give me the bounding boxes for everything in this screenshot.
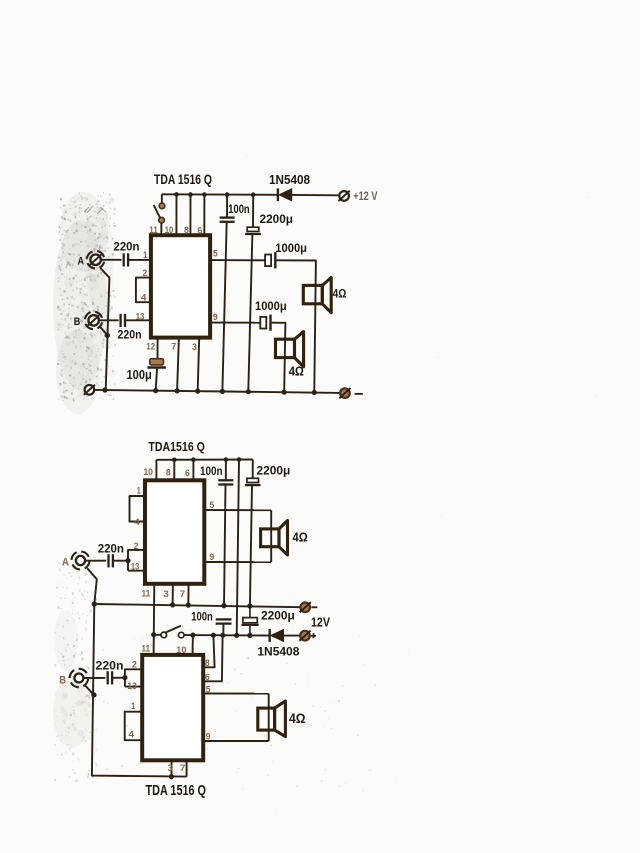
wire: speaker feed (circuit 2 lower) (268, 694, 270, 741)
label 100n (circuit 2 upper) (200, 464, 223, 478)
op-amp IC TDA1516Q U1 (circuit 1) (151, 235, 210, 337)
wire: 100u to ground (circuit 1) (156, 368, 157, 391)
pin label 3 (circuit 2 upper) (163, 589, 168, 600)
capacitor 100n (circuit 2 upper) (218, 480, 233, 484)
wire: pin 8 riser (circuit 2 upper) (173, 460, 175, 481)
node: ground junction speaker B (circuit 1) (282, 390, 287, 395)
svg-text:3: 3 (192, 342, 197, 353)
wire: pin 7 to ground (circuit 1) (177, 338, 179, 391)
svg-text:2: 2 (132, 660, 137, 671)
svg-text:220n: 220n (96, 659, 124, 673)
svg-text:4Ω: 4Ω (289, 364, 304, 378)
wire: pin 9 output (circuit 2 lower) (203, 740, 269, 742)
wire: +12V rail (circuit 2) (184, 634, 270, 636)
connector input A (circuit 2) (70, 550, 92, 572)
svg-text:8: 8 (205, 658, 210, 669)
op-amp IC TDA1516Q U3 (circuit 2 lower) (142, 655, 203, 760)
svg-text:A: A (78, 255, 85, 267)
svg-text:10: 10 (176, 645, 186, 656)
node: minus junction pin 7 (circuit 2) (186, 603, 191, 608)
terminal ground left (circuit 1) (84, 385, 95, 395)
wire: ground rail (circuit 1) (94, 390, 340, 393)
node: ground junction 2200u (circuit 1) (246, 389, 251, 394)
node: rail junction 100n (circuit 1) (225, 192, 230, 197)
wire: pin 8 to +12V rail (circuit 2 lower) (203, 635, 214, 667)
diode 1N5408 (circuit 2) (270, 629, 284, 642)
svg-text:+12 V: +12 V (353, 189, 378, 203)
svg-text:4Ω: 4Ω (333, 287, 347, 301)
pin label 6 (circuit 2 upper) (185, 468, 190, 479)
svg-text:100μ: 100μ (127, 368, 152, 382)
svg-text:11: 11 (141, 644, 150, 655)
label 2200u (circuit 1) (260, 212, 294, 226)
wire: 2200u upper lead (circuit 2 upper) (252, 460, 254, 479)
pin label 8 (circuit 1) (184, 225, 189, 236)
speaker 4ohm bridge (circuit 2 upper) (261, 521, 288, 556)
label minus (circuit 2) (311, 606, 317, 608)
wire: pin 8 riser (circuit 1) (189, 195, 191, 236)
wire: pin 9 output (circuit 2 upper) (204, 561, 271, 563)
svg-text:100n: 100n (228, 204, 249, 216)
node: shield junction B (circuit 1) (105, 333, 110, 338)
pin label 7 (circuit 1) (171, 342, 176, 353)
pin label 1 (circuit 2 lower) (131, 701, 136, 712)
node: minus junction shields (circuit 2) (92, 601, 97, 606)
svg-text:4: 4 (134, 517, 140, 528)
label 2200u (circuit 2 upper) (257, 464, 291, 478)
label 100n (circuit 1) (228, 204, 249, 216)
wire: cap to pin 13 (circuit 1) (125, 319, 151, 321)
wire: junction to pin 13 (circuit 2 upper) (128, 570, 145, 572)
pin label 3 (circuit 2 lower) (168, 763, 173, 774)
node: input junction (circuit 2 upper) (125, 558, 130, 563)
svg-text:5: 5 (206, 684, 211, 695)
pin label 6 (circuit 2 lower) (205, 672, 210, 683)
svg-text:7: 7 (180, 589, 185, 600)
wire: input B to coupling cap (circuit 2) (84, 677, 106, 679)
label A (circuit 1) (78, 255, 85, 267)
node: ground junction pin 3 (circuit 1) (195, 389, 200, 394)
label 100u (circuit 1) (127, 368, 152, 382)
label +12V (circuit 1) (353, 189, 378, 203)
node: +12V junction 2200u (circuit 2) (247, 633, 252, 638)
pin label 9 (circuit 1) (213, 312, 218, 323)
wire: pin 12 lead (circuit 1) (157, 338, 159, 359)
label diode type 1N5408 (circuit 1) (269, 173, 310, 187)
node: +12V junction pin 6 and 100n (circuit 2) (220, 633, 225, 638)
node: ground junction pin 7 (circuit 1) (175, 388, 180, 393)
svg-text:1N5408: 1N5408 (257, 644, 299, 658)
pin label 10 (circuit 2 lower) (176, 645, 186, 656)
node: shield junction B (circuit 2) (91, 692, 96, 697)
connector input B (circuit 2) (68, 667, 90, 689)
pin label 6 (circuit 1) (198, 225, 203, 236)
wire: 2200u lower leads (circuit 2) (249, 606, 251, 635)
svg-text:2: 2 (143, 268, 148, 279)
wire: pin 3 to bottom bus (circuit 2 lower) (170, 760, 172, 776)
svg-text:B: B (59, 674, 66, 686)
label B (circuit 1) (74, 316, 81, 328)
node: switch tap on pin 11 riser (circuit 2) (151, 632, 156, 637)
wire: input A to coupling cap (circuit 1) (101, 259, 122, 261)
node: rail junction pin 6 (circuit 2 upper) (191, 457, 196, 462)
terminal +12V (circuit 1) (339, 191, 350, 201)
label 4ohm speaker B (circuit 1) (289, 364, 304, 378)
svg-text:10: 10 (143, 467, 153, 478)
wire: 2200u lower lead to ground (circuit 1) (248, 234, 252, 391)
svg-text:2200μ: 2200μ (260, 212, 294, 226)
wire: speaker feed (circuit 2 upper) (270, 510, 272, 562)
wire: input shields to ground (circuit 1) (100, 268, 109, 390)
svg-text:7: 7 (171, 342, 176, 353)
wire: 100n upper lead (circuit 2 upper) (225, 460, 227, 481)
terminal +12V plus (circuit 2) (299, 631, 310, 641)
label 1N5408 (circuit 2) (257, 644, 299, 658)
svg-text:1: 1 (131, 701, 136, 712)
pin label 9 (circuit 2 upper) (210, 552, 215, 563)
wire: junction to pin 2 (circuit 2 lower) (125, 669, 142, 686)
connector input A (circuit 1) (85, 249, 106, 270)
wire: input B shield (circuit 1) (100, 326, 108, 335)
wire: pin 5 output (circuit 1) (210, 259, 265, 261)
pin label 13 (circuit 2 upper) (131, 561, 139, 572)
pin label 13 (circuit 1) (136, 311, 145, 322)
svg-text:6: 6 (185, 468, 190, 479)
wire: cap to pins 2/13 junction (circuit 2 upper) (113, 560, 128, 562)
svg-text:220n: 220n (114, 242, 140, 254)
wire: output B cap to speaker and ground (circuit 1) (272, 323, 286, 391)
capacitor 100n (circuit 1) (220, 218, 235, 222)
svg-text:2200μ: 2200μ (261, 609, 295, 623)
wire: pin 10 riser (circuit 2 upper) (155, 460, 157, 481)
svg-text:220n: 220n (118, 330, 142, 342)
pin label 10 (circuit 1) (165, 225, 174, 236)
switch S (circuit 1) (154, 194, 165, 223)
pin label 12 (circuit 1) (146, 342, 155, 353)
capacitor 2200u electrolytic (circuit 2 upper) (245, 478, 261, 485)
label 4ohm speaker A (circuit 1) (333, 287, 347, 301)
wire: pin 5 output (circuit 2 lower) (203, 693, 269, 695)
node: ground junction speaker A (circuit 1) (312, 390, 317, 395)
svg-text:6: 6 (205, 672, 210, 683)
capacitor 220n input A (circuit 2) (109, 554, 113, 567)
wire: +12V supply rail (circuit 1) (162, 193, 278, 196)
pin label 2 (circuit 1) (143, 268, 148, 279)
node: minus junction 2200u (circuit 2) (247, 603, 252, 608)
connector input B (circuit 1) (83, 310, 104, 331)
wire: input A to coupling cap (circuit 2) (85, 560, 106, 562)
pin label 1 (circuit 1) (143, 250, 148, 261)
wire: junction to pin 13 (circuit 2 lower) (125, 686, 142, 688)
wire: pin 10 riser (circuit 1) (175, 194, 177, 235)
svg-text:TDA 1516 Q: TDA 1516 Q (154, 171, 212, 187)
node: rail junction 2200u (circuit 1) (251, 192, 256, 197)
node: +12V junction pin 10 (circuit 2) (190, 633, 195, 638)
switch S (circuit 2) (161, 626, 184, 638)
node: ground junction shields (circuit 1) (102, 387, 107, 392)
node: ground junction 100n (circuit 1) (220, 389, 225, 394)
label 4ohm (circuit 2 upper) (293, 531, 308, 545)
pin label 4 (circuit 1) (141, 293, 147, 304)
wire: switch to pin 11 (circuit 1) (160, 223, 162, 236)
svg-text:12: 12 (146, 342, 155, 353)
svg-text:A: A (62, 556, 69, 568)
svg-text:220n: 220n (98, 542, 124, 556)
pin label 2 (circuit 2 upper) (134, 541, 139, 552)
pin label 11 (circuit 1) (149, 225, 158, 236)
wire: pin 1 to pin 4 loop (circuit 2 lower) (125, 712, 143, 741)
wire: 100n upper lead (circuit 1) (226, 195, 228, 218)
pin label 5 (circuit 1) (213, 249, 218, 260)
wire: pin 6 to +12V rail (circuit 2 lower) (203, 635, 222, 681)
wire: pin 3 to ground rail (circuit 2 upper) (172, 584, 174, 605)
wire: pin 6 riser (circuit 2 upper) (192, 460, 194, 481)
node: +12V junction pin 8 (circuit 2) (211, 633, 216, 638)
label 220n input A (circuit 2) (98, 542, 124, 556)
svg-text:6: 6 (198, 225, 203, 236)
wire: output A cap to speaker and ground (circuit 1) (277, 260, 316, 390)
capacitor 1000u output B (circuit 1) (260, 315, 270, 331)
wire: pin 10 riser (circuit 2 lower) (192, 635, 194, 655)
wire: input shields ground bus (circuit 2) (87, 568, 186, 776)
svg-text:2200μ: 2200μ (257, 464, 291, 478)
svg-text:100n: 100n (200, 464, 223, 478)
speaker 4ohm channel B (circuit 1) (276, 332, 304, 367)
svg-text:1000μ: 1000μ (275, 241, 307, 255)
svg-text:4Ω: 4Ω (289, 711, 306, 726)
op-amp IC TDA1516Q U2 (circuit 2 upper) (145, 480, 204, 584)
wire: pin 6 riser (circuit 1) (203, 195, 205, 236)
label 12V (circuit 2) (311, 615, 330, 630)
label IC type TDA1516Q (circuit 1) (154, 171, 212, 187)
svg-text:1: 1 (137, 486, 142, 497)
svg-text:4Ω: 4Ω (293, 531, 308, 545)
wire: pin 5 output (circuit 2 upper) (204, 509, 271, 511)
node: minus junction 100n (circuit 2) (221, 603, 226, 608)
wire: pin 2 to pin 4 feedback loop (circuit 1) (136, 278, 151, 303)
svg-text:11: 11 (142, 588, 151, 599)
pin label 4 (circuit 2 lower) (129, 729, 135, 740)
label 1000u output A (circuit 1) (275, 241, 307, 255)
node: rail junction pin 10 (circuit 1) (174, 192, 179, 197)
svg-text:10: 10 (165, 225, 174, 236)
capacitor 100u electrolytic (circuit 1) (147, 359, 166, 368)
label 220n input B (circuit 1) (118, 330, 142, 342)
speaker 4ohm bridge (circuit 2 lower) (258, 701, 286, 737)
wire: pin 7 to bottom bus (circuit 2 lower) (186, 760, 188, 776)
node: minus junction pin 3 (circuit 2) (170, 602, 175, 607)
node: ground junction 100u (circuit 1) (153, 388, 158, 393)
wire: minus rail (circuit 2) (94, 604, 300, 607)
pin label 7 (circuit 2 upper) (180, 589, 185, 600)
label minus (circuit 1) (355, 393, 363, 395)
pin label 7 (circuit 2 lower) (180, 763, 186, 774)
svg-text:TDA1516 Q: TDA1516 Q (148, 439, 205, 454)
pin label 5 (circuit 2 upper) (210, 500, 215, 511)
wire: pin 9 output (circuit 1) (210, 322, 260, 324)
node: rail junction pin 8 (circuit 1) (188, 192, 193, 197)
pin label 13 (circuit 2 lower) (127, 681, 136, 692)
capacitor 220n input B (circuit 1) (121, 314, 125, 327)
svg-text:13: 13 (131, 561, 139, 572)
svg-text:4: 4 (141, 293, 147, 304)
diode 1N5408 (circuit 1) (278, 188, 292, 201)
svg-text:3: 3 (168, 763, 173, 774)
svg-text:3: 3 (163, 589, 168, 600)
svg-text:9: 9 (210, 552, 215, 563)
wire: pin 11 riser to IC2 pin 11 (circuit 2) (153, 584, 156, 655)
pin label 4 (circuit 2 upper) (134, 517, 140, 528)
wire: supply feed rail to +12V rail (circuit 2) (237, 460, 239, 636)
svg-text:9: 9 (206, 732, 211, 743)
pin label 1 (circuit 2 upper) (137, 486, 142, 497)
node: +12V junction supply feed (circuit 2) (234, 633, 239, 638)
pin label 11 (circuit 2 upper) (142, 588, 151, 599)
node: rail junction 100n (circuit 2 upper) (224, 457, 229, 462)
node: bottom bus junction pin 3 (circuit 2) (169, 774, 174, 779)
pin label 3 (circuit 1) (192, 342, 197, 353)
svg-text:2: 2 (134, 541, 139, 552)
wire: 100n lower lead (circuit 2 upper) (224, 485, 226, 607)
label 220n input B (circuit 2) (96, 659, 124, 673)
pin label 8 (circuit 2 upper) (166, 468, 171, 479)
svg-text:8: 8 (166, 468, 171, 479)
label IC type TDA1516Q (circuit 2 lower) (146, 782, 207, 799)
label 2200u lower (circuit 2) (261, 609, 295, 623)
wire: 2200u upper lead (circuit 1) (252, 195, 254, 228)
svg-text:5: 5 (213, 249, 218, 260)
label plus (circuit 2) (311, 633, 316, 638)
capacitor 220n input A (circuit 1) (124, 253, 128, 266)
wire: input B shield (circuit 2) (85, 685, 94, 695)
capacitor 100n lower (circuit 2) (216, 619, 232, 623)
svg-text:11: 11 (149, 225, 158, 236)
label 220n input A (circuit 1) (114, 242, 140, 254)
wire: pin 3 to ground (circuit 1) (198, 338, 200, 391)
wire: +12V rail after diode to terminal (circuit 1) (292, 194, 339, 196)
terminal supply minus (circuit 2) (300, 602, 311, 612)
wire: tap to switch (circuit 2) (154, 634, 161, 636)
pin label 2 (circuit 2 lower) (132, 660, 137, 671)
svg-text:5: 5 (210, 500, 215, 511)
pin label 9 (circuit 2 lower) (206, 732, 211, 743)
pin label 10 (circuit 2 upper) (143, 467, 153, 478)
node: rail junction supply feed (circuit 2) (237, 457, 242, 462)
svg-text:1N5408: 1N5408 (269, 173, 310, 187)
node: rail junction pin 8 (circuit 2 upper) (172, 458, 177, 463)
svg-text:100n: 100n (191, 609, 213, 623)
label A (circuit 2) (62, 556, 69, 568)
wire: 100n lower lead to ground (circuit 1) (222, 222, 226, 391)
svg-text:TDA 1516 Q: TDA 1516 Q (146, 782, 207, 799)
capacitor 2200u electrolytic (circuit 1) (245, 227, 261, 234)
label 100n lower (circuit 2) (191, 609, 213, 623)
svg-text:13: 13 (127, 681, 136, 692)
svg-text:9: 9 (213, 312, 218, 323)
wire: 100n lower to +12V rail (circuit 2) (222, 624, 224, 636)
svg-text:B: B (74, 316, 81, 328)
label B (circuit 2) (59, 674, 66, 686)
label IC type TDA1516Q (circuit 2 upper) (148, 439, 205, 454)
terminal supply minus (circuit 1) (339, 388, 350, 398)
capacitor 220n input B (circuit 2) (108, 671, 112, 684)
wire: cap to pin 1 (circuit 1) (128, 259, 151, 261)
capacitor 1000u output A (circuit 1) (265, 252, 275, 268)
pin label 8 (circuit 2 lower) (205, 658, 210, 669)
wire: diode to +12V terminal (circuit 2) (284, 635, 301, 637)
pin label 5 (circuit 2 lower) (206, 684, 211, 695)
wire: input B to coupling cap (circuit 1) (99, 319, 119, 321)
label 4ohm (circuit 2 lower) (289, 711, 306, 726)
wire: 2200u lower lead (circuit 2 upper) (250, 485, 252, 607)
capacitor 2200u lower electrolytic (circuit 2) (242, 618, 259, 625)
wire: supply rail (circuit 2 upper) (156, 459, 252, 461)
svg-text:12V: 12V (311, 615, 330, 630)
wire: pin 1 to pin 4 loop (circuit 2 upper) (130, 496, 146, 522)
wire: cap to pins 2/13 junction (circuit 2 lower) (112, 677, 125, 679)
pin label 11 (circuit 2 lower) (141, 644, 150, 655)
node: input junction (circuit 2 lower) (122, 675, 127, 680)
node: rail junction pin 6 (circuit 1) (202, 192, 207, 197)
svg-text:4: 4 (129, 729, 135, 740)
svg-text:8: 8 (184, 225, 189, 236)
svg-text:1: 1 (143, 250, 148, 261)
wire: junction to pin 2 (circuit 2 upper) (128, 550, 145, 571)
svg-text:7: 7 (180, 763, 186, 774)
wire: pin 7 to ground rail (circuit 2 upper) (187, 584, 189, 605)
svg-text:13: 13 (136, 311, 145, 322)
label 1000u output B (circuit 1) (255, 299, 287, 313)
speaker 4ohm channel A (circuit 1) (303, 278, 331, 313)
svg-text:1000μ: 1000μ (255, 299, 287, 313)
